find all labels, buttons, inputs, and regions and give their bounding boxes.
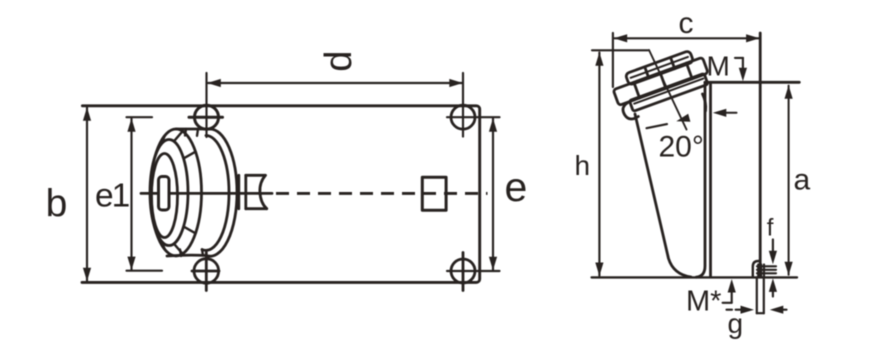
svg-text:M*: M* <box>686 286 721 318</box>
mounting hole bottom-right <box>451 253 475 291</box>
svg-text:f: f <box>767 214 774 241</box>
svg-text:M: M <box>707 51 730 82</box>
dimension c line <box>613 33 759 87</box>
dimension g <box>727 309 787 311</box>
wall thickness arrow <box>722 112 737 114</box>
svg-text:a: a <box>794 163 811 196</box>
svg-text:b: b <box>46 183 68 226</box>
mounting hole top-left <box>189 105 223 129</box>
mounting hole bottom-left <box>192 253 219 291</box>
svg-text:h: h <box>575 150 591 181</box>
base line <box>592 276 797 278</box>
dimension a line <box>788 86 790 275</box>
flange tab below base <box>757 277 764 313</box>
flange outline (front view) <box>82 106 480 283</box>
panel screw hatch <box>757 265 776 278</box>
collar ribs <box>161 129 203 256</box>
enclosure box <box>696 33 799 277</box>
dimension b line <box>86 108 88 282</box>
centerline through collar <box>141 192 272 195</box>
svg-text:20°: 20° <box>659 131 704 164</box>
svg-text:g: g <box>728 308 744 339</box>
dimension h line <box>592 50 648 275</box>
cone body sides <box>635 94 706 277</box>
svg-text:d: d <box>318 51 360 72</box>
svg-text:e1: e1 <box>95 177 129 214</box>
svg-text:c: c <box>679 7 694 40</box>
small square (cable entry) <box>422 177 446 210</box>
dimension d line <box>207 73 464 137</box>
axis line <box>649 50 687 130</box>
dimension f <box>772 240 774 297</box>
flange foot bracket <box>753 261 760 277</box>
dimension e line <box>447 117 500 271</box>
inclined collar (side view) <box>609 47 714 122</box>
dimension e1 line <box>127 117 163 271</box>
svg-text:e: e <box>505 164 528 210</box>
socket collar (front view) <box>150 129 237 256</box>
latch tab and break-out <box>239 175 267 208</box>
keyway <box>159 177 170 211</box>
mounting hole top-right <box>451 105 475 129</box>
dashed centerline <box>276 192 488 195</box>
